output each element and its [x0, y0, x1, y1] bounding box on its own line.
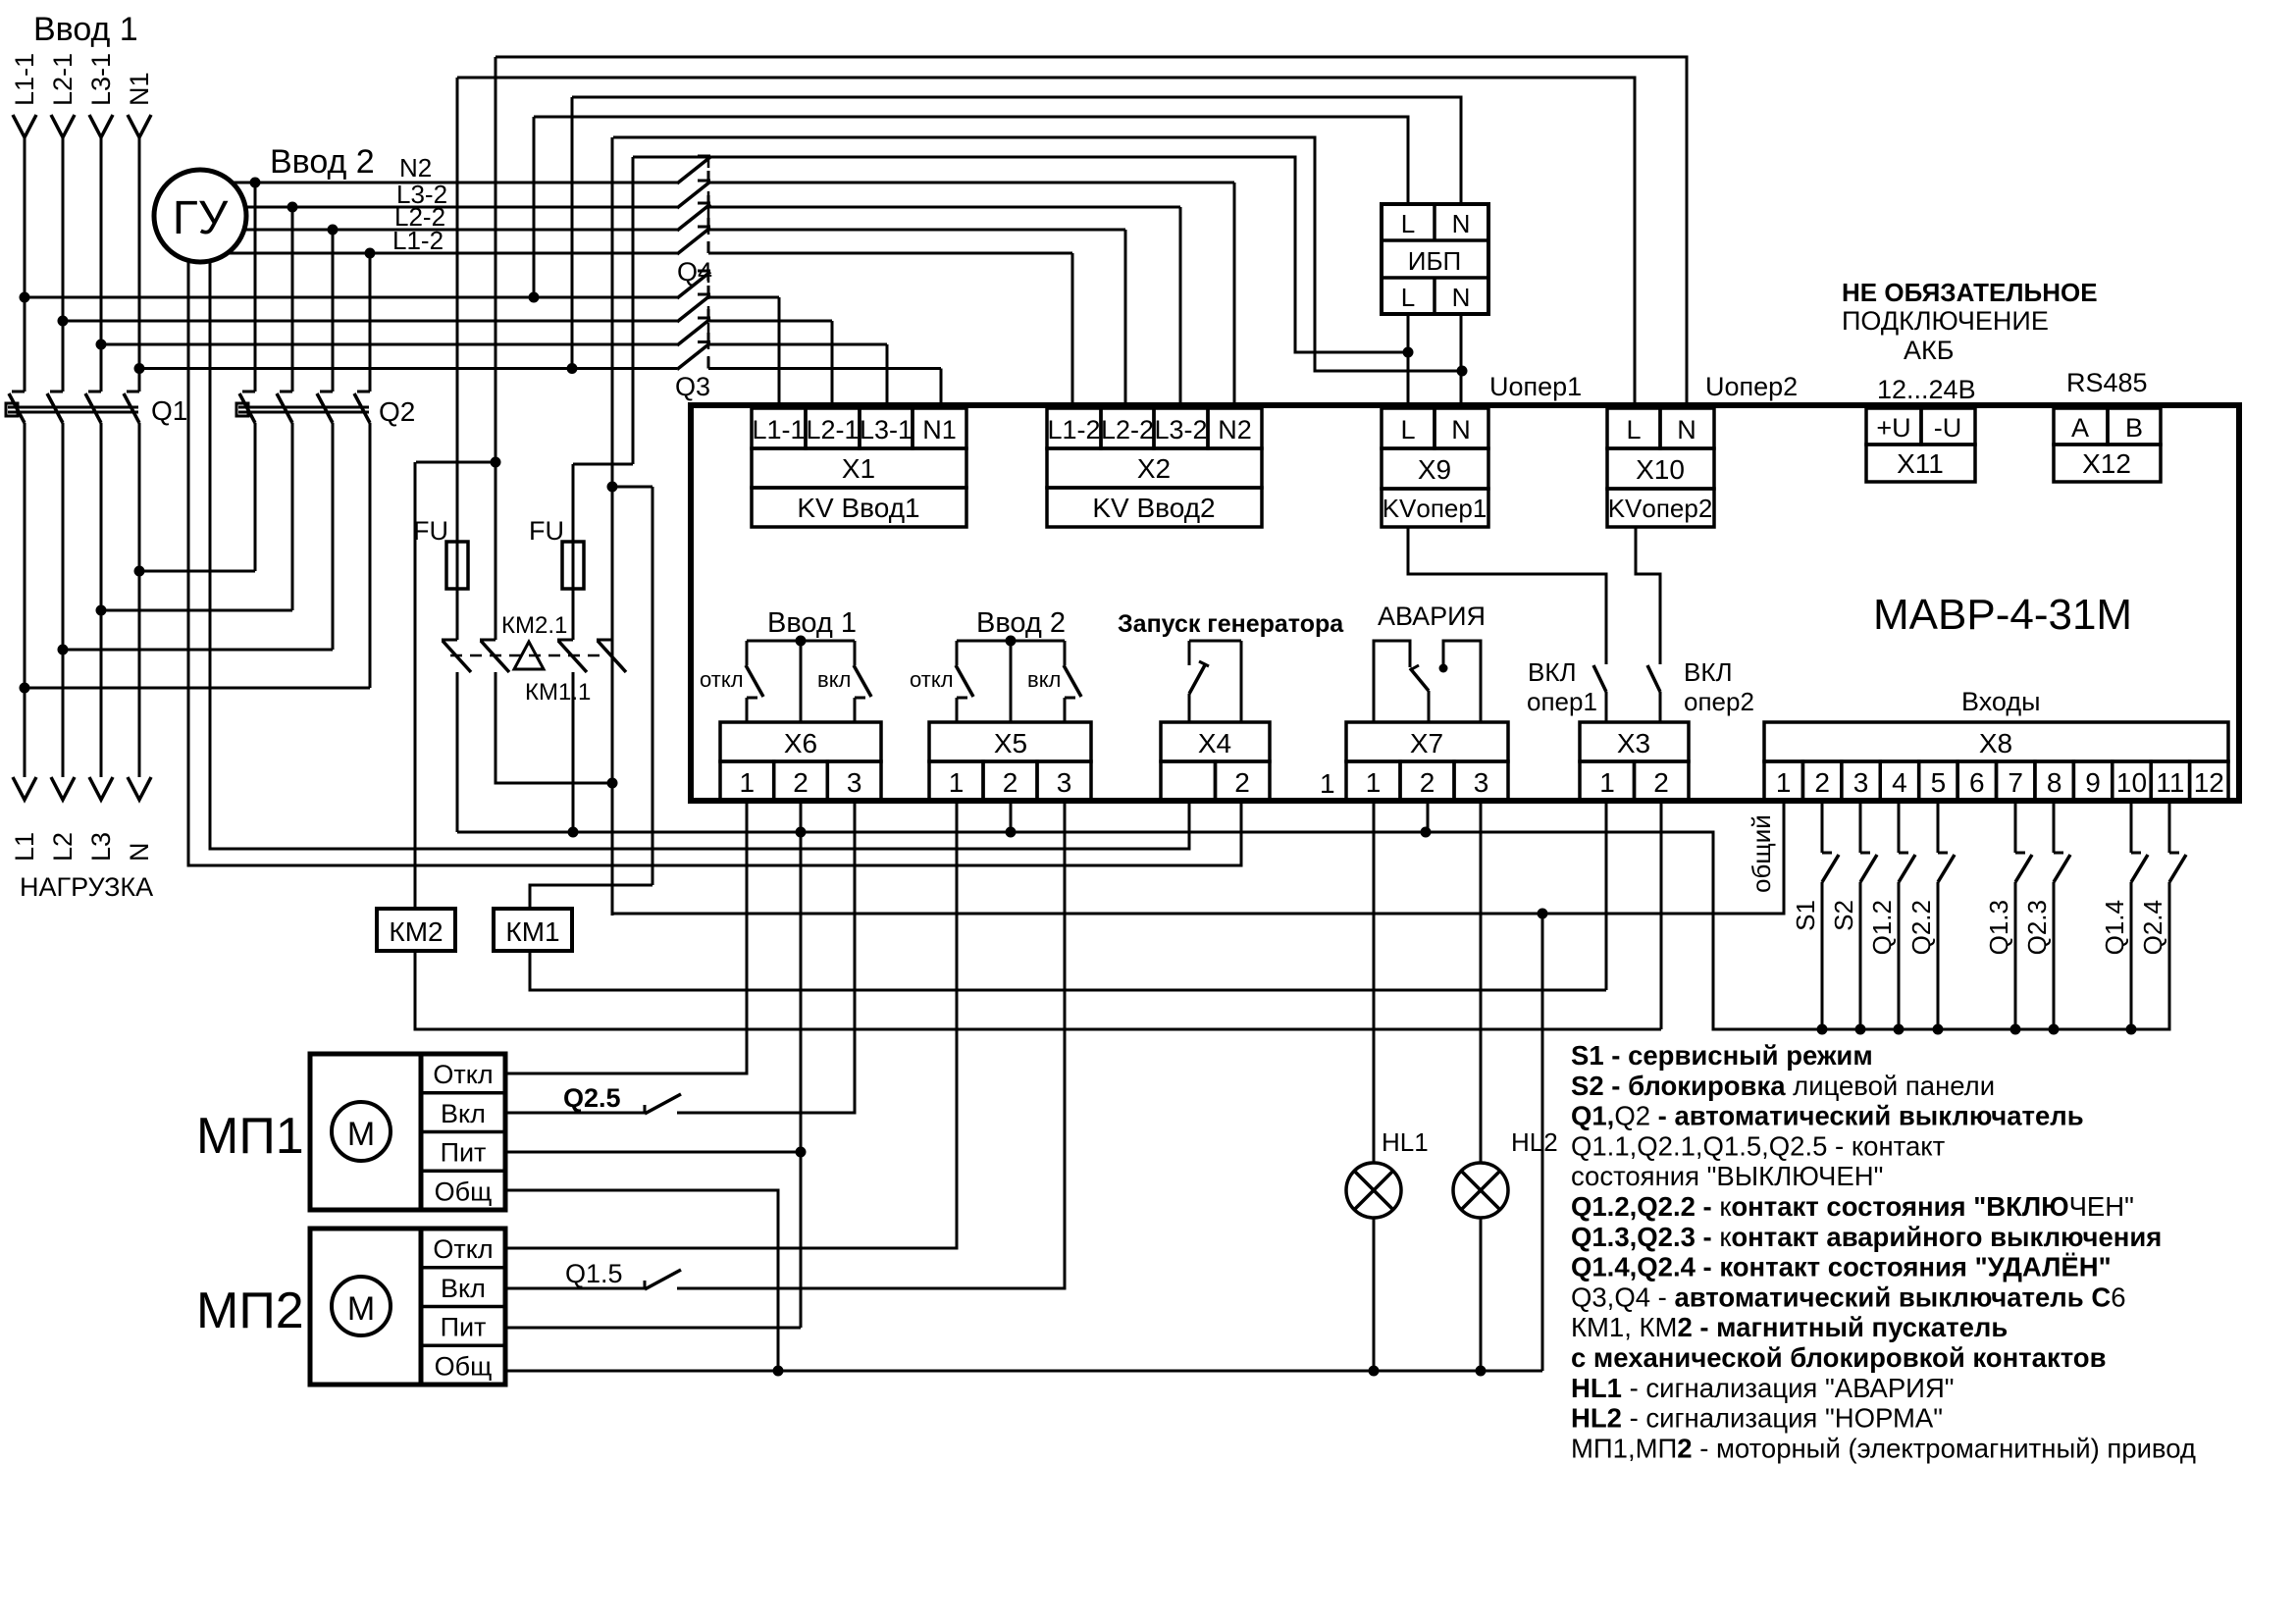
wire X4.2 — [1240, 641, 1243, 722]
svg-text:вкл: вкл — [817, 667, 851, 692]
motor drive МП2 — [310, 1229, 505, 1385]
node tap (103,351) — [96, 340, 107, 350]
wire top y=160 (FU2 to X9 L) — [633, 157, 1408, 352]
wire X4 top bus — [1189, 640, 1241, 643]
svg-text:Откл: Откл — [433, 1060, 493, 1089]
wire Q3 out y=327 — [708, 320, 832, 323]
svg-text:+U: +U — [1876, 413, 1910, 443]
wire dropper x=298 to Q2 — [291, 207, 294, 392]
wire merge L3 y=622 — [101, 609, 292, 612]
node N2 branch — [250, 178, 261, 188]
wire КМ2 bottom to X3.2 bus y=1049 — [415, 951, 1661, 1029]
wire FU1 branch x=466 — [456, 78, 459, 640]
svg-text:12...24В: 12...24В — [1877, 375, 1976, 404]
breaker Q1 (4-pole) — [12, 391, 25, 393]
svg-text:Q1,Q2 - автоматический выключа: Q1,Q2 - автоматический выключатель — [1571, 1101, 2084, 1131]
svg-text:Q1: Q1 — [151, 395, 187, 426]
svg-text:Q1.2,Q2.2 - контакт состояния: Q1.2,Q2.2 - контакт состояния "ВКЛЮЧЕН" — [1571, 1191, 2134, 1222]
svg-text:N2: N2 — [399, 153, 432, 183]
contact tick АВАРИЯ — [1410, 665, 1419, 670]
svg-text:Ввод 2: Ввод 2 — [976, 607, 1066, 639]
wire riser 544 (ИБП L from L1-1) — [533, 117, 536, 297]
wire КМ2 coil top riser — [414, 462, 417, 909]
wire Ввод1 line 1 lower — [24, 423, 26, 777]
wire Ввод1 line 3 top arrow — [89, 115, 113, 137]
wire tap y=351 to Q3 — [101, 343, 677, 346]
contact КМ1.1 pole 4 — [597, 639, 612, 642]
terminal block X11 (АКБ) — [1866, 408, 1921, 445]
wire X5.2 from bus — [1010, 641, 1013, 722]
wire Q2 pole x=377 down — [369, 423, 372, 688]
node (583,375) — [567, 363, 578, 374]
svg-text:1: 1 — [1599, 767, 1615, 798]
svg-text:L: L — [1401, 209, 1415, 238]
svg-text:ПОДКЛЮЧЕНИЕ: ПОДКЛЮЧЕНИЕ — [1842, 306, 2049, 336]
wire Q3 out y=351 — [708, 343, 887, 346]
terminal block X12 (RS485) — [2054, 408, 2108, 445]
wire top y=99 (N1 to ИБП N) — [572, 97, 1461, 204]
fuse FU2 — [562, 542, 584, 589]
node L1-2 branch — [365, 248, 376, 259]
svg-text:L3-1: L3-1 — [86, 53, 116, 106]
contact откл (X6) — [746, 641, 749, 665]
contact КМ2.1 pole 1 — [442, 639, 457, 642]
wire Q4 out y=234 — [708, 229, 1125, 232]
wire Q2 pole x=339 down — [332, 423, 335, 650]
svg-text:X1: X1 — [842, 453, 875, 484]
svg-text:X3: X3 — [1617, 728, 1650, 759]
svg-text:N: N — [1452, 283, 1471, 312]
svg-text:X5: X5 — [994, 728, 1027, 759]
node chain 1896 on bus — [1855, 1024, 1866, 1035]
svg-text:L2: L2 — [48, 832, 78, 862]
wire L3-2 from ГУ to Q4 — [245, 206, 677, 209]
svg-text:МП1,МП2 - моторный (электромаг: МП1,МП2 - моторный (электромагнитный) пр… — [1571, 1433, 2196, 1463]
contactor coil КМ1 — [494, 909, 572, 951]
node chain 2172 on bus — [2126, 1024, 2137, 1035]
svg-text:МАВР-4-31М: МАВР-4-31М — [1873, 591, 2132, 639]
wire МП2 Пит — [505, 1327, 801, 1330]
wire Ввод1 line 2 upper — [62, 135, 65, 392]
svg-text:Q1.2: Q1.2 — [1867, 900, 1897, 955]
wire Q4 out y=258 — [708, 252, 1072, 255]
svg-text:Вкл: Вкл — [441, 1099, 486, 1128]
wire HL1 to bus — [1373, 1218, 1376, 1371]
svg-text:X10: X10 — [1636, 454, 1685, 485]
svg-text:Q1.3,Q2.3 - контакт аварийного: Q1.3,Q2.3 - контакт аварийного выключени… — [1571, 1222, 2162, 1252]
wire Ввод1 line 1 upper — [24, 135, 26, 392]
node chain 1857 on bus — [1817, 1024, 1828, 1035]
wire ИБП N out to X9 — [1460, 314, 1463, 405]
wire X3.2 down to КМ2 bus — [1660, 801, 1663, 1029]
svg-text:Q3: Q3 — [675, 372, 710, 401]
svg-text:X8: X8 — [1979, 728, 2012, 759]
svg-text:Общ: Общ — [435, 1351, 493, 1381]
svg-text:-U: -U — [1934, 413, 1962, 443]
node tap (142,375.5) — [134, 363, 145, 374]
wire N2 from ГУ to Q4 — [233, 182, 677, 184]
svg-text:ВКЛ: ВКЛ — [1684, 657, 1733, 687]
wire МП2 Вкл left part — [505, 1287, 645, 1290]
breaker Q4 (4-pole on Ввод2 lines) — [677, 157, 710, 183]
svg-text:N: N — [1677, 415, 1696, 445]
node Uопер1 N — [1457, 366, 1468, 377]
svg-text:ГУ: ГУ — [173, 192, 229, 244]
svg-text:Входы: Входы — [1961, 687, 2041, 716]
wire X7.3 and NC stub — [1443, 641, 1481, 722]
svg-text:ИБП: ИБП — [1408, 246, 1461, 276]
svg-text:KVопер2: KVопер2 — [1608, 494, 1713, 523]
node (103,622) — [96, 605, 107, 616]
svg-text:2: 2 — [1234, 767, 1250, 798]
svg-text:КМ1: КМ1 — [505, 916, 559, 947]
svg-text:FU: FU — [413, 516, 448, 546]
contact вкл (X5) — [1064, 641, 1067, 665]
wire ГУ to X4.2 (Запуск) — [188, 260, 1241, 865]
node chain 1975 on bus — [1933, 1024, 1944, 1035]
wire tap y=375.5 to Q3 — [139, 367, 677, 370]
wire tap y=303 to Q3 — [25, 296, 677, 299]
device box МАВР-4-31М — [691, 405, 2239, 801]
node tap (64,327) — [58, 316, 69, 327]
generator ГУ circle — [154, 170, 246, 262]
wire Q1.5 to X5.3 — [677, 801, 1065, 1288]
node (624,798) — [607, 778, 618, 789]
wire riser x=794 to X1 — [778, 297, 781, 405]
wire to X3.1 — [1605, 692, 1608, 722]
svg-text:X12: X12 — [2082, 448, 2131, 479]
contact S2 — [1859, 803, 1862, 853]
contact вкл (X6) — [854, 641, 857, 665]
wire merge L1 y=701 — [25, 687, 370, 690]
svg-text:KV Ввод1: KV Ввод1 — [797, 493, 919, 523]
svg-text:2: 2 — [1814, 767, 1830, 798]
svg-text:5: 5 — [1931, 767, 1947, 798]
svg-text:L: L — [1400, 415, 1415, 445]
contact КМ2.1 pole 2 — [480, 639, 496, 642]
node (584,848) — [568, 827, 579, 838]
svg-text:общий: общий — [1747, 814, 1776, 893]
wire Общ bus y=1397 — [505, 1370, 1542, 1373]
svg-text:1: 1 — [1320, 768, 1335, 799]
wire КМ1 bottom to X3.1 bus y=1009 — [530, 951, 1606, 990]
breaker Q3 (4-pole on Ввод1 sense lines) — [677, 272, 710, 298]
contact blade ВКЛ опер2 — [1647, 665, 1660, 692]
wire X7.1 and common stub — [1374, 641, 1410, 722]
svg-text:откл: откл — [910, 667, 954, 692]
svg-text:Общ: Общ — [435, 1177, 493, 1206]
svg-text:N1: N1 — [922, 415, 957, 445]
wire riser x=1203 to X2 — [1179, 207, 1182, 405]
wire dropper x=377 to Q2 — [369, 253, 372, 392]
svg-text:N: N — [1452, 209, 1471, 238]
svg-text:RS485: RS485 — [2066, 368, 2148, 397]
svg-text:Q2.3: Q2.3 — [2022, 900, 2052, 955]
wire merge N1-N2 y=582 — [139, 570, 255, 573]
wire Ввод1 line 3 upper — [100, 135, 103, 392]
wire X6.2 / Пит riser x=816 — [800, 801, 803, 1328]
node X5.2 on bus 848 — [1006, 827, 1017, 838]
svg-text:X4: X4 — [1198, 728, 1231, 759]
svg-text:L1-2: L1-2 — [1047, 415, 1100, 445]
contactor coil КМ2 — [377, 909, 455, 951]
wire Q2 pole x=260 down — [254, 423, 257, 571]
contact Q1.2 — [1898, 803, 1901, 853]
wire Q4 out y=186 — [708, 182, 1234, 184]
svg-text:1: 1 — [949, 767, 965, 798]
wire tap y=327 to Q3 — [63, 320, 677, 323]
wire riser 645 — [632, 157, 635, 464]
wire 505 to N net — [496, 672, 612, 783]
wire KVопер2 to ВКЛ опер2 — [1636, 527, 1660, 664]
terminal block X10 / KVопер2 — [1607, 408, 1660, 448]
svg-text:Uопер2: Uопер2 — [1705, 372, 1798, 401]
wire X3.1 down to КМ1 bus — [1605, 801, 1608, 990]
node (142,582) — [134, 566, 145, 577]
svg-text:Q2: Q2 — [379, 396, 415, 427]
svg-text:Пит: Пит — [441, 1313, 487, 1342]
wire X4.1 lower — [1188, 694, 1191, 722]
svg-text:L2-2: L2-2 — [1101, 415, 1154, 445]
lamp HL1 — [1346, 1163, 1401, 1218]
terminal block X3 — [1580, 722, 1689, 761]
svg-text:KVопер1: KVопер1 — [1383, 494, 1487, 523]
svg-text:3: 3 — [1853, 767, 1869, 798]
Q3 mechanical link dashed — [707, 273, 710, 368]
wire L2-2 from ГУ to Q4 — [244, 229, 677, 232]
svg-text:S1: S1 — [1791, 900, 1820, 931]
wire X5.2 stub — [1010, 801, 1013, 832]
wire FU2 top link to riser 645 — [573, 463, 633, 466]
svg-text:2: 2 — [793, 767, 809, 798]
svg-text:S1 - сервисный режим: S1 - сервисный режим — [1571, 1040, 1873, 1071]
svg-text:X2: X2 — [1137, 453, 1171, 484]
НАГРУЗКА arrow 4 — [128, 777, 151, 800]
wire link to КМ1 coil top — [612, 486, 652, 489]
svg-text:1: 1 — [1776, 767, 1792, 798]
wire to X3.2 — [1659, 692, 1662, 722]
node (25,701) — [20, 683, 30, 694]
contact tick Запуск — [1199, 661, 1209, 666]
svg-text:Q1.5: Q1.5 — [565, 1259, 623, 1288]
svg-text:11: 11 — [2156, 767, 2184, 798]
node (64,662) — [58, 645, 69, 655]
wire Ввод1 line 4 top arrow — [128, 115, 151, 137]
node chain 2054 on bus — [2010, 1024, 2021, 1035]
wire ГУ to X4.1 (Запуск) — [210, 261, 1189, 849]
wire riser x=959 to X1 — [940, 369, 943, 406]
Q2 handle square — [236, 403, 248, 416]
terminal block X2 — [1047, 408, 1101, 448]
svg-text:L1-2: L1-2 — [392, 226, 444, 255]
svg-text:КМ1.1: КМ1.1 — [525, 679, 591, 706]
svg-text:12: 12 — [2194, 767, 2224, 798]
svg-text:КМ2.1: КМ2.1 — [501, 612, 567, 639]
node (624,496) — [607, 482, 618, 493]
wire riser x=1147 to X2 — [1124, 230, 1127, 405]
node L3-2 branch — [287, 202, 298, 213]
svg-text:N1: N1 — [125, 72, 154, 106]
svg-text:АКБ: АКБ — [1904, 336, 1954, 365]
wire общий y=931 to X8.1 — [612, 801, 1784, 914]
wire Ввод1 line 1 top arrow — [13, 115, 36, 137]
contact КМ1.1 pole 3 — [557, 639, 573, 642]
svg-text:KV Ввод2: KV Ввод2 — [1092, 493, 1215, 523]
svg-text:Q2.2: Q2.2 — [1906, 900, 1936, 955]
svg-text:вкл: вкл — [1027, 667, 1061, 692]
svg-text:Ввод 1: Ввод 1 — [33, 11, 138, 48]
wire Q2 pole x=298 down — [291, 423, 294, 610]
svg-text:FU: FU — [529, 516, 564, 546]
svg-text:Пит: Пит — [441, 1138, 487, 1168]
wire riser x=904 to X1 — [886, 344, 889, 405]
node X9 L junction — [1403, 347, 1414, 358]
terminal block X5 — [929, 722, 1091, 761]
svg-text:A: A — [2071, 413, 2089, 443]
svg-text:B: B — [2125, 413, 2143, 443]
wire X6.2 from bus — [800, 641, 803, 722]
wire N net riser x=624 — [611, 137, 614, 916]
svg-text:L1-1: L1-1 — [752, 415, 805, 445]
svg-text:Uопер1: Uопер1 — [1489, 372, 1582, 401]
contact Q1.3 — [2014, 803, 2017, 853]
НАГРУЗКА arrow 2 — [51, 777, 75, 800]
wire merge L2 y=662 — [63, 649, 333, 652]
wire dropper x=339 to Q2 — [332, 230, 335, 392]
contact Q2.4 — [2168, 803, 2171, 853]
contact blade АВАРИЯ — [1410, 668, 1429, 691]
contact S1 — [1821, 803, 1824, 853]
svg-text:М: М — [347, 1290, 375, 1328]
svg-text:опер1: опер1 — [1527, 687, 1597, 716]
wire riser 583 (ИБП N from N1) — [571, 97, 574, 369]
svg-text:НАГРУЗКА: НАГРУЗКА — [20, 872, 153, 902]
terminal block X9 / KVопер1 — [1382, 408, 1435, 448]
svg-text:L3-2: L3-2 — [1154, 415, 1207, 445]
wire top y=79 (FU1 to X10 L) — [457, 78, 1635, 405]
wire МП2 Откл to X5.1 — [505, 801, 957, 1248]
svg-text:ВКЛ: ВКЛ — [1528, 657, 1577, 687]
terminal block X6 — [720, 722, 881, 761]
svg-text:Ввод 2: Ввод 2 — [270, 143, 375, 181]
wire X5 top bus — [957, 640, 1065, 643]
terminal block X1 — [752, 408, 806, 448]
svg-text:Q3,Q4 - автоматический выключа: Q3,Q4 - автоматический выключатель С6 — [1571, 1282, 2125, 1312]
wire МП1 Откл to X6.1 — [505, 801, 747, 1073]
svg-text:HL1 - сигнализация "АВАРИЯ": HL1 - сигнализация "АВАРИЯ" — [1571, 1373, 1955, 1403]
svg-text:L3-1: L3-1 — [860, 415, 913, 445]
svg-text:Q1.1,Q2.1,Q1.5,Q2.5 - контакт: Q1.1,Q2.1,Q1.5,Q2.5 - контакт — [1571, 1130, 1946, 1161]
node chain 2093 on bus — [2049, 1024, 2060, 1035]
svg-text:Откл: Откл — [433, 1234, 493, 1264]
fuse FU1 — [446, 542, 468, 589]
svg-text:S2 - блокировка лицевой панели: S2 - блокировка лицевой панели — [1571, 1071, 1995, 1101]
wire Q2.5 to X6.3 — [677, 801, 855, 1113]
svg-text:3: 3 — [847, 767, 862, 798]
svg-text:Ввод 1: Ввод 1 — [767, 607, 857, 639]
wire Q3 out y=375.5 — [708, 367, 941, 370]
node X6.2 on bus 848 — [796, 827, 807, 838]
svg-text:7: 7 — [2008, 767, 2023, 798]
svg-text:Q1.4: Q1.4 — [2100, 900, 2129, 955]
svg-text:HL2: HL2 — [1511, 1127, 1558, 1157]
interlock triangle — [514, 642, 544, 669]
node общий to lamps — [1538, 909, 1548, 919]
node HL2 bottom — [1476, 1366, 1487, 1377]
wire HL2 to bus — [1480, 1218, 1483, 1371]
wire dropper x=260 to Q2 — [254, 183, 257, 392]
node X5 bus — [1006, 636, 1017, 647]
wire riser 665 — [652, 487, 654, 885]
svg-text:МП2: МП2 — [196, 1282, 304, 1339]
wire riser x=1093 to X2 — [1071, 253, 1074, 405]
wire top y=58 (X10 N) — [496, 57, 1687, 405]
svg-text:L1: L1 — [10, 832, 39, 862]
terminal block X4 — [1161, 722, 1270, 761]
wire МП1 Вкл left part — [505, 1112, 645, 1115]
node X7.2 on bus 848 — [1421, 827, 1432, 838]
wire Q3 out y=303 — [708, 296, 779, 299]
svg-text:КМ2: КМ2 — [389, 916, 443, 947]
svg-text:8: 8 — [2047, 767, 2062, 798]
contact Q2.3 — [2053, 803, 2056, 853]
wire FU2 branch x=584 — [572, 464, 575, 640]
wire КМ1 coil top — [530, 885, 652, 909]
svg-text:1: 1 — [740, 767, 756, 798]
svg-text:МП1: МП1 — [196, 1108, 304, 1165]
wire Ввод1 line 2 lower — [62, 423, 65, 777]
svg-text:2: 2 — [1420, 767, 1435, 798]
contact blade Запуск — [1189, 663, 1206, 694]
wire riser x=848 to X1 — [831, 321, 834, 405]
svg-text:N2: N2 — [1218, 415, 1252, 445]
svg-text:S2: S2 — [1829, 900, 1858, 931]
contact Q2.2 — [1937, 803, 1940, 853]
wire ИБП L out to X9 — [1407, 314, 1410, 405]
svg-text:опер2: опер2 — [1684, 687, 1754, 716]
motor drive МП1 — [310, 1054, 505, 1210]
svg-text:Q1.4,Q2.4 - контакт состояния: Q1.4,Q2.4 - контакт состояния "УДАЛЁН" — [1571, 1252, 2112, 1282]
svg-text:Вкл: Вкл — [441, 1274, 486, 1303]
wire Ввод1 line 4 lower — [138, 423, 141, 777]
svg-text:HL2 - сигнализация "НОРМА": HL2 - сигнализация "НОРМА" — [1571, 1403, 1943, 1434]
svg-text:Q2.4: Q2.4 — [2138, 900, 2167, 955]
svg-text:L2-1: L2-1 — [806, 415, 859, 445]
breaker Q2 (4-pole) — [242, 391, 255, 393]
svg-text:2: 2 — [1653, 767, 1669, 798]
svg-text:Q2.5: Q2.5 — [563, 1083, 621, 1113]
node АВАРИЯ NC contact dot — [1439, 664, 1448, 673]
svg-text:L2-1: L2-1 — [48, 53, 78, 106]
contact откл (X5) — [956, 641, 959, 665]
wire top y=119 (L1-1 to ИБП L) — [534, 117, 1408, 204]
wire X7.1 to HL1 — [1373, 801, 1376, 1163]
wire X4.1 stub — [1188, 641, 1191, 665]
svg-text:N: N — [1451, 415, 1471, 445]
node chain 1935 on bus — [1894, 1024, 1905, 1035]
svg-text:4: 4 — [1892, 767, 1907, 798]
svg-text:X11: X11 — [1897, 448, 1944, 479]
svg-text:L3: L3 — [86, 832, 116, 862]
wire X6 top bus — [747, 640, 855, 643]
node L2-2 branch — [328, 225, 339, 235]
contact blade ВКЛ опер1 — [1593, 665, 1606, 692]
svg-text:9: 9 — [2085, 767, 2101, 798]
svg-text:состояния "ВЫКЛЮЧЕН": состояния "ВЫКЛЮЧЕН" — [1571, 1161, 1883, 1191]
svg-text:откл: откл — [700, 667, 744, 692]
wire Ввод1 line 2 top arrow — [51, 115, 75, 137]
svg-text:3: 3 — [1057, 767, 1072, 798]
